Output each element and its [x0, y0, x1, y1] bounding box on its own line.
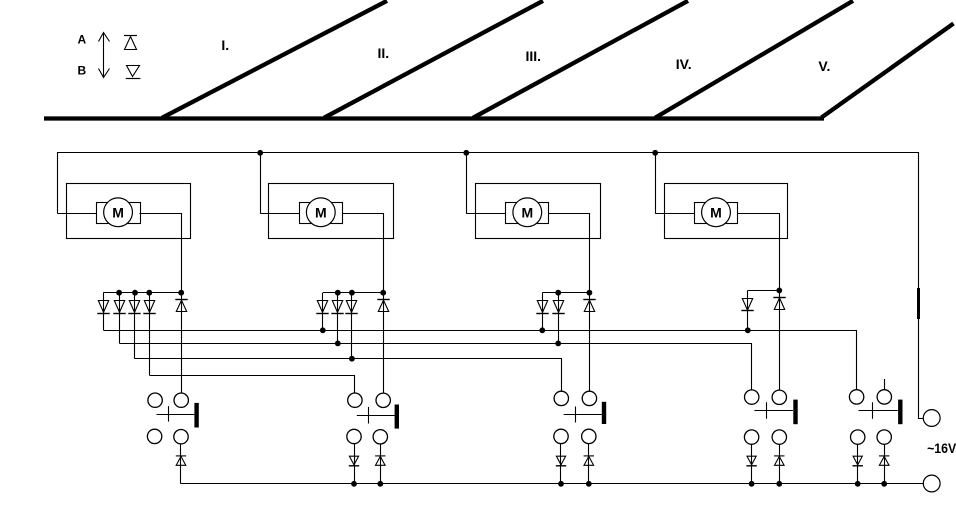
turnout III track: [473, 1, 688, 118]
wire diode3-IV column: [558, 293, 560, 344]
svg-text:B: B: [78, 64, 87, 78]
wire diode4-V column: [747, 290, 749, 330]
node g4-motor: [776, 288, 782, 294]
wire supply top bus: [58, 153, 924, 419]
motor3 housing box: [476, 184, 601, 239]
wire diode1-II column: [149, 293, 151, 376]
node g1-d4: [146, 290, 152, 296]
wire motor4 return column: [779, 290, 781, 390]
diode D3-A: [583, 299, 595, 301]
wire return bottom bus: [181, 483, 923, 485]
svg-text:V.: V.: [818, 58, 830, 74]
motor M2: [300, 198, 343, 227]
pushbutton S3 contact bottom-left: [554, 429, 568, 443]
pushbutton S4 contact top-right: [772, 390, 786, 404]
node bus-motor4: [652, 150, 658, 156]
wire diode group4 header: [748, 290, 780, 292]
wire button5 right to bus: [884, 444, 886, 484]
wire button5 left to bus: [857, 444, 859, 484]
pushbutton S1 actuator: [157, 403, 199, 428]
diode D4-V: [742, 299, 752, 311]
node bus-motor3: [463, 150, 469, 156]
pushbutton S1 contact top-right: [174, 393, 188, 407]
wire route line II: [150, 376, 355, 394]
wire diode group3 header: [542, 292, 589, 294]
node g2-d3: [349, 290, 355, 296]
node routeIV-g2: [335, 341, 341, 347]
wire motor2 return column: [383, 293, 385, 394]
node bus-S3R: [586, 481, 592, 487]
svg-text:M: M: [710, 204, 722, 220]
wire motor2 output: [343, 214, 384, 293]
wire feed motor1: [58, 213, 97, 215]
diode D3-IV: [553, 301, 563, 313]
node routeIII-g2: [349, 356, 355, 362]
svg-text:III.: III.: [526, 48, 542, 64]
turnout II track: [324, 1, 543, 118]
node routeIV-g3: [555, 341, 561, 347]
node routeV-g4: [745, 327, 751, 333]
node g3-motor: [587, 290, 593, 296]
diode DB1-A: [176, 455, 186, 457]
pushbutton S2 contact bottom-right: [373, 430, 387, 444]
diode D1-III: [129, 301, 139, 313]
node bus-S5L: [855, 481, 861, 487]
svg-text:M: M: [315, 204, 327, 220]
turnout I track: [162, 1, 387, 118]
pushbutton S4 contact bottom-right: [772, 430, 786, 444]
diode D1-II: [144, 301, 154, 313]
node g1-d2: [116, 290, 122, 296]
wire diode group1 header: [103, 292, 181, 294]
diode DB3-A: [584, 455, 594, 457]
wire motor1 return column: [181, 293, 183, 393]
pushbutton S5 contact bottom-left: [851, 430, 865, 444]
thick contact segment on right feeder: [917, 288, 920, 319]
motor2 housing box: [269, 184, 394, 239]
pushbutton S2 actuator: [357, 405, 399, 429]
node bus-S5R: [881, 481, 887, 487]
diode DB4-B: [747, 456, 756, 465]
wire feed motor4: [655, 153, 657, 214]
terminal supply -: [923, 475, 940, 492]
legend double arrow: [99, 33, 110, 78]
wire button2 left to bus: [354, 444, 356, 484]
svg-text:IV.: IV.: [676, 56, 692, 72]
diode DB3-B: [556, 456, 565, 465]
node g1-d3: [132, 290, 138, 296]
legend direction A symbol: [124, 36, 137, 50]
pushbutton S5 contact top-right: [877, 390, 891, 404]
terminal supply +: [923, 410, 940, 427]
diode D2-A: [377, 299, 389, 301]
diode D1-V: [98, 301, 108, 313]
node g2-d2: [335, 290, 341, 296]
pushbutton S4 contact bottom-left: [744, 430, 758, 444]
svg-text:A: A: [78, 32, 87, 46]
svg-text:M: M: [112, 204, 124, 220]
diode DB5-A: [879, 455, 889, 457]
diode D1-IV: [114, 301, 124, 313]
wire route line III: [135, 359, 562, 392]
node bus-S2L: [351, 481, 357, 487]
diode D3-V: [537, 301, 547, 313]
diode DB2-A: [375, 455, 385, 457]
wire button3 left to bus: [560, 444, 562, 484]
pushbutton S1 contact bottom-left: [147, 429, 161, 443]
wire button4 right to bus: [779, 444, 781, 484]
motor M4: [695, 198, 738, 227]
wire diode1-V column: [103, 293, 105, 331]
svg-text:I.: I.: [221, 37, 229, 53]
node g3-d2: [555, 290, 561, 296]
diode D1-A: [175, 299, 187, 301]
wire diode2-III column: [351, 293, 353, 359]
wire motor3 output: [549, 214, 590, 293]
diode D4-A: [773, 297, 785, 299]
svg-text:II.: II.: [378, 45, 390, 61]
svg-text:M: M: [521, 204, 533, 220]
turnout V track: [822, 24, 954, 118]
wire route line V: [104, 331, 857, 390]
wire button1 right to bus: [180, 444, 182, 484]
motor M1: [97, 198, 141, 227]
wire feed motor2: [260, 153, 262, 214]
node bus-S3L: [558, 481, 564, 487]
wire diode2-V column: [322, 293, 324, 331]
pushbutton S1 contact top-left: [148, 393, 162, 407]
svg-text:~16V: ~16V: [927, 440, 956, 456]
pushbutton S5 contact bottom-right: [877, 430, 891, 444]
wire button4 left to bus: [751, 444, 753, 484]
turnout IV track: [655, 1, 853, 118]
label ~16V: [927, 440, 956, 456]
pushbutton S2 contact top-left: [348, 393, 362, 407]
wire motor4 output: [738, 214, 780, 291]
legend direction B symbol: [126, 66, 141, 79]
node routeV-g2: [320, 327, 326, 333]
wire motor1 output: [140, 214, 182, 293]
wire stub button V right: [884, 379, 886, 390]
wire diode1-III column: [134, 293, 136, 359]
node g1-motor: [178, 290, 184, 296]
node bus-S4L: [749, 481, 755, 487]
track main line: [44, 116, 824, 120]
wire route line IV: [120, 344, 752, 391]
node routeV-g3: [539, 327, 545, 333]
wire diode group2 header: [323, 292, 383, 294]
wire button2 right to bus: [380, 444, 382, 484]
wire motor3 return column: [589, 293, 591, 392]
node bus-S4R: [776, 481, 782, 487]
diode DB4-A: [774, 455, 784, 457]
motor M3: [506, 198, 549, 227]
diode DB5-B: [853, 456, 862, 465]
motor4 housing box: [665, 184, 788, 239]
pushbutton S3 contact top-right: [582, 391, 596, 405]
diode DB2-B: [349, 456, 358, 465]
pushbutton S2 contact bottom-left: [347, 429, 361, 443]
diode D2-IV: [332, 301, 342, 313]
wire feed motor3: [466, 153, 468, 214]
node bus-motor2: [257, 150, 263, 156]
pushbutton S2 contact top-right: [376, 393, 390, 407]
pushbutton S4 actuator: [754, 400, 797, 425]
diode D2-III: [346, 301, 356, 313]
pushbutton S4 contact top-left: [745, 390, 759, 404]
pushbutton S3 contact bottom-right: [582, 429, 596, 443]
wire button3 right to bus: [588, 444, 590, 484]
wire diode3-V column: [542, 293, 544, 331]
motor1 housing box: [67, 184, 191, 239]
wire diode1-IV column: [119, 293, 121, 344]
pushbutton S3 contact top-left: [554, 391, 568, 405]
pushbutton S5 contact top-left: [849, 390, 863, 404]
node g2-motor: [380, 290, 386, 296]
diode D2-V: [317, 301, 327, 313]
pushbutton S5 actuator: [859, 400, 903, 425]
node bus-S2R: [377, 481, 383, 487]
wire diode2-IV column: [337, 293, 339, 344]
pushbutton S1 contact bottom-right: [174, 430, 188, 444]
pushbutton S3 actuator: [564, 402, 607, 424]
